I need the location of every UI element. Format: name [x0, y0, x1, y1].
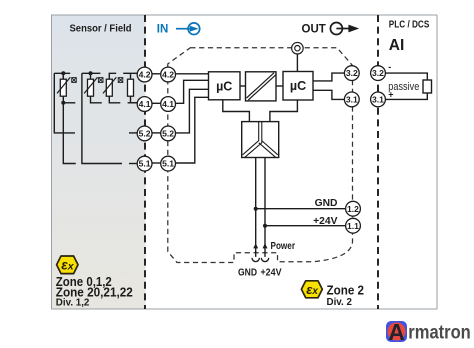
wire rail to terminal 5.2 [129, 132, 137, 134]
sensor RTD1 resistor body [60, 79, 66, 96]
wire terminal 5.2 to uC1 [176, 89, 209, 133]
isolator barrier box [246, 72, 277, 101]
svg-text:5.2: 5.2 [162, 129, 174, 139]
power socket GND [252, 258, 259, 262]
passive load resistor box [423, 80, 432, 93]
power arrow +24V [263, 243, 268, 248]
sensor RTD1 bottom stub wire [63, 102, 75, 104]
SECTION: sensors [54, 73, 137, 163]
sensor RTD1 diagonal stroke [57, 77, 70, 93]
svg-text:3.2: 3.2 [372, 68, 384, 78]
sensor RTD1 theta mark [72, 78, 77, 83]
junction dot RTD1 top [61, 71, 65, 75]
terminal 3.1 module [344, 92, 359, 107]
terminal 3.2 module [344, 66, 359, 81]
power arrow GND [253, 243, 258, 248]
svg-text:A: A [388, 319, 405, 345]
svg-text:1.2: 1.2 [347, 204, 359, 214]
shield terminal double circle [292, 42, 304, 54]
outer frame [52, 15, 438, 309]
sensor RTD1 body vertical leads [62, 73, 64, 79]
svg-text:GND: GND [238, 267, 257, 279]
wire link 5.1 field-module [152, 162, 161, 164]
svg-text:IN: IN [157, 23, 169, 35]
svg-text:µC: µC [290, 79, 306, 93]
svg-text:rmatron: rmatron [408, 322, 471, 343]
svg-text:+24V: +24V [261, 267, 282, 279]
wire uC2 to output bracket lower [313, 90, 344, 99]
junction dot RTD2 top [89, 71, 93, 75]
svg-text:3.1: 3.1 [346, 95, 358, 105]
wire +24V to terminal 1.1 [265, 225, 346, 227]
wire +24V rail vertical [264, 158, 266, 257]
Ex hexagon zone2 [301, 281, 322, 298]
terminal 5.1 field [137, 156, 152, 171]
terminal 4.2 field [137, 67, 152, 82]
terminal 4.1 module [161, 97, 176, 112]
separator module/PLC (dashed) [377, 15, 379, 309]
svg-text:PLC / DCS: PLC / DCS [389, 19, 430, 30]
junction dot RTD1 bottom [61, 101, 65, 105]
wire rail to terminal 4.1 [128, 102, 138, 104]
sensor R4 bottom lead wire [131, 96, 138, 103]
Ex hexagon field [57, 256, 78, 274]
sensor RTD2 theta mark [98, 78, 103, 83]
sensor RTD2 resistor body [88, 79, 94, 96]
sensor RTD3 theta mark [118, 78, 123, 83]
sensor RTD2 left lead wire down to 5.1 rail [82, 73, 122, 163]
sensor RTD2 diagonal stroke [84, 77, 97, 93]
wire link 4.1 field-module [152, 102, 161, 104]
svg-text:4.2: 4.2 [139, 70, 151, 80]
wire link 4.2 field-module [152, 73, 161, 75]
sensor RTD3 bottom lead wire [109, 96, 120, 103]
PLC wire 3.2 to passive load [386, 73, 428, 80]
wire rail to terminal 4.2 [123, 72, 137, 74]
module boundary (dashed outline) [168, 48, 353, 263]
svg-text:1.1: 1.1 [347, 221, 359, 231]
terminal 1.1 module [346, 218, 361, 233]
SECTION: module [176, 54, 346, 257]
svg-text:3.1: 3.1 [372, 95, 384, 105]
wire terminal 4.2 to uC1 [176, 73, 209, 75]
Armatron logo mark [386, 319, 407, 345]
svg-text:εx: εx [61, 258, 74, 273]
svg-text:+24V: +24V [313, 216, 337, 227]
terminal 4.2 module [161, 67, 176, 82]
wire shield terminal to uC2 [296, 54, 298, 71]
svg-text:4.1: 4.1 [139, 99, 151, 109]
power socket +24V [261, 258, 268, 262]
sensor RTD1 left lead wire down [54, 73, 75, 133]
svg-text:5.2: 5.2 [139, 129, 151, 139]
terminal 5.1 module [161, 156, 176, 171]
power supply Y symbol [243, 122, 278, 157]
sensor RTD3 resistor body [106, 79, 112, 96]
OUT icon [330, 23, 351, 35]
separator field/module (dashed) [144, 15, 146, 309]
sensor RTD1 body lead wire down to 5.1 rail [63, 73, 76, 163]
svg-text:4.1: 4.1 [162, 99, 174, 109]
svg-text:5.1: 5.1 [162, 159, 174, 169]
terminal 3.1 PLC [371, 92, 386, 107]
sensor/field panel background [52, 15, 146, 309]
wire terminal 5.1 to uC1 [176, 97, 209, 163]
sensor R4 (resistance) top lead wire [130, 73, 132, 79]
svg-text:-: - [388, 62, 391, 72]
wire rail to terminal 5.1 [129, 163, 137, 165]
svg-text:Zone 2: Zone 2 [327, 283, 365, 298]
sensor RTD2 body vertical leads [90, 73, 92, 79]
wire terminal 4.1 to uC1 [176, 80, 209, 103]
svg-text:GND: GND [315, 198, 338, 209]
PLC wire passive load to 3.1 [386, 93, 428, 99]
sensor RTD2 (3-wire) top lead wire [82, 72, 101, 74]
terminal 4.1 field [137, 97, 152, 112]
wire uC2 to output bracket upper [313, 73, 344, 81]
IN icon [176, 23, 200, 35]
svg-text:3.2: 3.2 [346, 68, 358, 78]
wire GND rail vertical [255, 158, 257, 257]
terminal 5.2 module [161, 126, 176, 141]
microcontroller uC2 box [283, 72, 313, 101]
svg-text:Power: Power [271, 241, 296, 252]
sensor RTD1 (4-wire) top lead wire [54, 72, 70, 74]
junction dot +24V rail [263, 224, 267, 228]
wire link 5.2 field-module [152, 132, 161, 134]
sensor R4 resistor body [128, 79, 134, 96]
wire uC1 to isolator [240, 85, 246, 87]
microcontroller uC1 box [209, 72, 241, 100]
terminal 1.2 module [346, 201, 361, 216]
terminal 5.2 field [137, 126, 152, 141]
wire uC1 to power unit [223, 100, 250, 122]
svg-text:4.2: 4.2 [162, 70, 174, 80]
power supply unit box [242, 122, 279, 158]
wire GND to terminal 1.2 [256, 208, 346, 210]
svg-text:Sensor / Field: Sensor / Field [70, 23, 132, 34]
svg-text:µC: µC [216, 79, 232, 93]
sensor RTD2 bottom lead wire [91, 96, 102, 103]
SECTION: terminals [137, 66, 385, 233]
svg-text:AI: AI [389, 37, 405, 54]
svg-text:OUT: OUT [302, 24, 326, 36]
sensor RTD3 diagonal stroke [103, 77, 116, 93]
wire isolator to uC2 [276, 85, 283, 87]
svg-text:Div. 1,2: Div. 1,2 [56, 298, 90, 309]
SECTION: rails [123, 73, 160, 163]
svg-text:passive: passive [388, 81, 419, 93]
svg-text:Div. 2: Div. 2 [327, 297, 353, 308]
wire uC2 to power unit [270, 100, 298, 122]
svg-text:5.1: 5.1 [139, 159, 151, 169]
sensor RTD3 (2-wire) top lead wire [109, 73, 116, 79]
terminal 3.2 PLC [371, 66, 386, 81]
junction dot GND rail [254, 207, 258, 211]
isolator diagonal double stroke [247, 73, 276, 100]
